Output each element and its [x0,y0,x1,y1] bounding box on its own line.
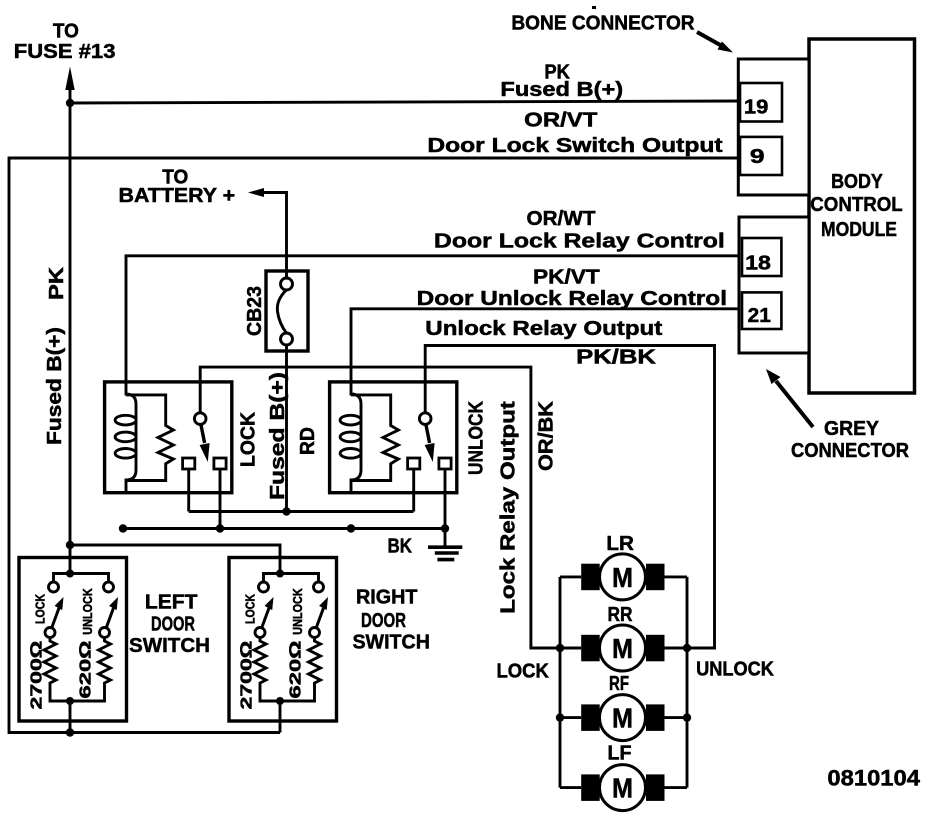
svg-text:0810104: 0810104 [827,766,920,791]
svg-text:9: 9 [750,146,765,168]
svg-text:PK/BK: PK/BK [576,347,657,369]
svg-text:OR/BK: OR/BK [536,400,558,471]
svg-text:RR: RR [608,604,633,626]
svg-text:FUSE #13: FUSE #13 [14,41,116,63]
svg-text:DOOR: DOOR [361,610,406,632]
svg-text:CB23: CB23 [244,286,266,336]
svg-text:620Ω: 620Ω [78,641,95,699]
svg-text:Door Lock Switch Output: Door Lock Switch Output [427,135,723,157]
svg-text:LOCK: LOCK [496,661,549,683]
svg-text:PK: PK [46,266,68,300]
svg-text:DOOR: DOOR [151,614,195,636]
svg-text:Door Unlock Relay Control: Door Unlock Relay Control [417,288,727,310]
svg-text:OR/VT: OR/VT [524,109,597,131]
svg-text:TO: TO [53,21,79,43]
svg-text:LEFT: LEFT [145,592,198,614]
svg-text:620Ω: 620Ω [288,641,305,699]
svg-text:RIGHT: RIGHT [356,587,418,609]
svg-text:Fused B(+): Fused B(+) [44,327,66,445]
svg-text:SWITCH: SWITCH [129,635,210,657]
svg-text:RF: RF [609,673,629,695]
svg-text:UNLOCK: UNLOCK [81,588,95,635]
svg-text:19: 19 [744,96,769,118]
svg-text:LR: LR [606,533,634,555]
svg-text:CONNECTOR: CONNECTOR [791,440,910,462]
svg-text:MODULE: MODULE [821,218,897,241]
svg-text:RD: RD [297,427,319,455]
svg-text:Fused B(+): Fused B(+) [267,372,289,500]
svg-text:Door Lock Relay Control: Door Lock Relay Control [434,231,725,253]
svg-text:21: 21 [748,305,771,327]
svg-text:2700Ω: 2700Ω [29,641,46,710]
svg-text:BK: BK [387,536,412,558]
svg-text:PK/VT: PK/VT [533,266,600,288]
svg-text:18: 18 [745,253,771,275]
svg-text:SWITCH: SWITCH [352,632,430,654]
svg-text:UNLOCK: UNLOCK [696,659,774,681]
svg-text:CONTROL: CONTROL [810,193,902,216]
svg-text:LF: LF [608,743,632,765]
svg-text:UNLOCK: UNLOCK [466,401,488,475]
svg-text:BONE CONNECTOR: BONE CONNECTOR [511,12,695,34]
svg-text:LOCK: LOCK [34,594,48,624]
svg-text:2700Ω: 2700Ω [239,641,256,710]
svg-text:GREY: GREY [824,418,880,440]
svg-text:OR/WT: OR/WT [527,208,596,230]
svg-text:Fused B(+): Fused B(+) [500,79,623,101]
svg-text:LOCK: LOCK [244,594,258,624]
svg-text:BATTERY +: BATTERY + [119,185,236,207]
svg-text:BODY: BODY [831,170,883,193]
svg-text:LOCK: LOCK [238,411,260,467]
svg-text:Lock Relay Output: Lock Relay Output [498,401,520,614]
svg-text:UNLOCK: UNLOCK [291,588,305,635]
svg-text:Unlock Relay Output: Unlock Relay Output [425,318,662,340]
